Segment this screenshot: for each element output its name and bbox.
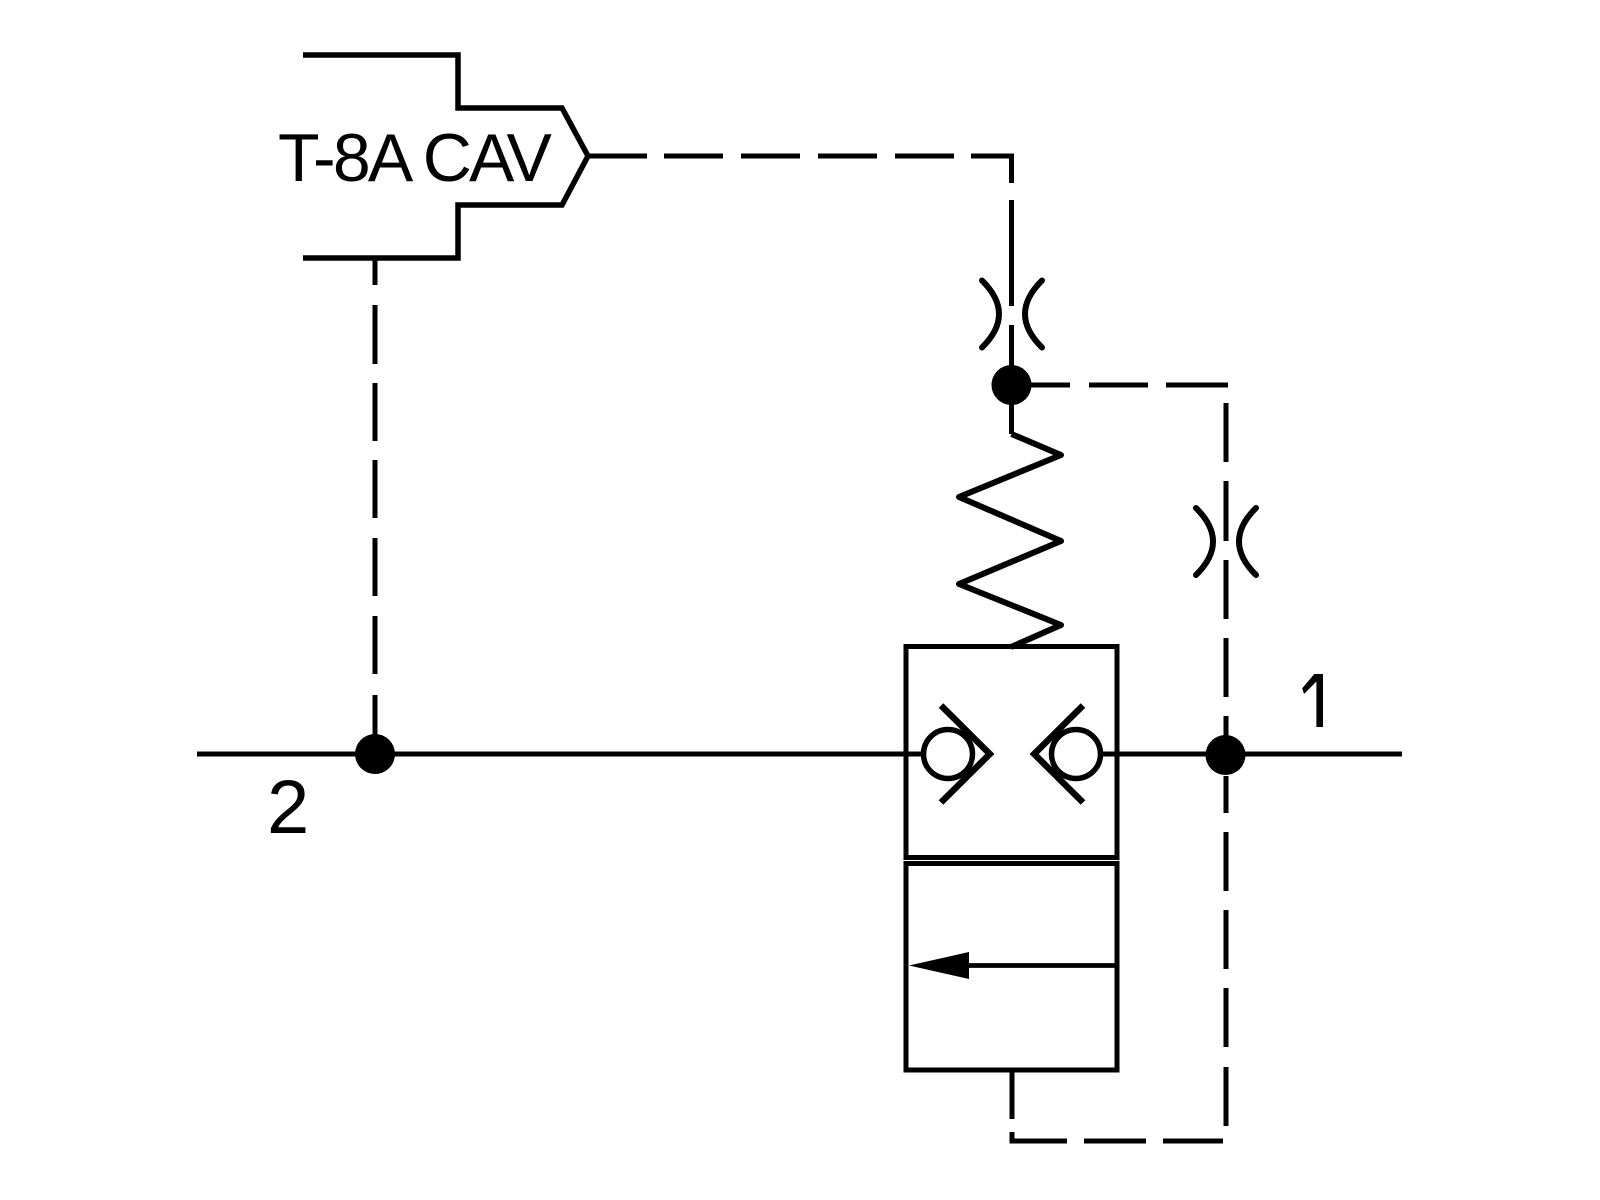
junction dot port 2 xyxy=(355,734,395,774)
check valve right: ball xyxy=(1052,730,1101,779)
spring upper lead xyxy=(1009,400,1014,434)
pilot branch dashed horizontal to right line xyxy=(1029,383,1228,388)
check valve left: ball xyxy=(924,730,973,779)
main line left (port 2 side) xyxy=(197,752,923,757)
check valve left: seat V xyxy=(941,706,990,803)
port label 1 xyxy=(1302,674,1323,727)
arrow in lower valve section xyxy=(966,963,1118,968)
svg-text:T-8A CAV: T-8A CAV xyxy=(278,120,553,196)
right pilot line vertical dashes below port 1 junction xyxy=(1224,776,1229,1126)
junction dot above spring xyxy=(992,365,1032,405)
bottom dashed connector xyxy=(1012,1132,1067,1141)
pilot line vertical dashes above orifice xyxy=(1009,200,1014,385)
junction dot port 1 xyxy=(1206,735,1246,775)
svg-text:2: 2 xyxy=(267,765,309,850)
valve body upper section xyxy=(906,647,1117,858)
callout flag outline T-8A CAV xyxy=(303,55,588,258)
spring zigzag xyxy=(959,434,1061,647)
orifice O2 (restriction) on right pilot line xyxy=(1196,508,1256,575)
orifice O1 (restriction) on pilot line xyxy=(982,281,1042,348)
check valve right: seat V xyxy=(1034,706,1083,803)
pilot line corner dash xyxy=(971,156,1012,183)
pilot line from callout to corner (dashed horizontal) xyxy=(588,154,954,159)
valve body lower section xyxy=(906,864,1117,1071)
main line right (port 1 side) xyxy=(1101,752,1402,757)
dashed drop line from callout to port 2 junction xyxy=(373,259,378,736)
right pilot line vertical dashes below orifice O2 to port 1 junction xyxy=(1224,560,1229,740)
right pilot line vertical dashes above orifice O2 xyxy=(1224,403,1229,541)
drain stub below valve xyxy=(1010,1070,1015,1119)
